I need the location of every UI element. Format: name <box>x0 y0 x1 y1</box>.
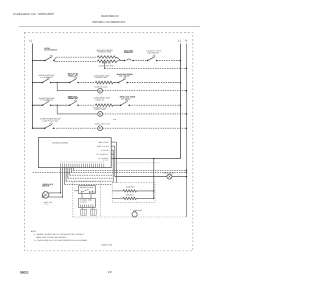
wire exit P4 <box>111 153 113 155</box>
svg-text:OVEN BAKE UNIT: OVEN BAKE UNIT <box>94 74 111 77</box>
junction L2 rung3 <box>180 104 182 106</box>
wire <box>51 104 70 106</box>
junction fork rung3 <box>57 105 58 106</box>
wire lower branch dashed <box>56 61 97 63</box>
connector strip pins <box>61 164 104 168</box>
wire drop rung3 <box>56 105 58 114</box>
wire drop to neutral branch <box>104 62 106 69</box>
wire to oven light <box>115 176 167 178</box>
junction L2 rung1 <box>180 60 182 62</box>
wire <box>51 82 70 84</box>
svg-text:OVEN DOOR SW: OVEN DOOR SW <box>39 74 55 77</box>
wire pin7 <box>71 168 73 173</box>
lock switch contacts <box>81 189 95 192</box>
wire lamp to N <box>103 113 187 115</box>
wire to L2 <box>129 104 180 106</box>
broil relay contact <box>69 100 79 106</box>
resistor broil relay coil <box>123 197 136 199</box>
junction L1 rung3 <box>32 104 34 106</box>
svg-text:GROUND: GROUND <box>134 209 143 212</box>
junction N light <box>186 176 188 178</box>
wire pin6 <box>69 168 71 176</box>
wire to N upper <box>73 169 186 171</box>
svg-text:WIRING SCHEMATIC: WIRING SCHEMATIC <box>92 20 126 24</box>
svg-text:WIRE AND COVER WH HIDDEN: WIRE AND COVER WH HIDDEN <box>36 236 67 239</box>
terminal pad P2 <box>90 207 96 215</box>
junction L1 rung1 <box>32 60 34 62</box>
junction fork rung2 <box>57 82 58 83</box>
junction N rung4 <box>186 127 188 129</box>
wire to thermostat <box>121 60 125 62</box>
svg-text:2. OVEN RELAY K IS SWITCHED: 2. OVEN RELAY K IS SWITCHED B AS SHOWN <box>34 239 88 242</box>
wire coil2 left <box>112 197 123 199</box>
resistor vent heater upper <box>97 56 116 59</box>
wire A-B stub 2 <box>90 194 92 199</box>
motor M1 <box>42 192 49 199</box>
junction L2 rung2 <box>180 82 182 84</box>
wire to L2 <box>127 82 180 84</box>
temp probe switch <box>44 123 54 129</box>
junction N rung2 <box>186 90 188 92</box>
wire coil1 left <box>112 190 123 192</box>
wire rung2 from L1 <box>33 82 43 84</box>
junction N rung1 <box>186 68 188 70</box>
box lock motor switch <box>79 198 96 207</box>
wire fork upper <box>54 57 56 60</box>
junction coil1 <box>153 190 154 191</box>
wire lamp to N <box>103 90 187 92</box>
svg-text:Publication No. 5995A023: Publication No. 5995A023 <box>13 12 54 16</box>
wire dashed <box>78 104 95 106</box>
dashed enclosure right <box>112 183 155 203</box>
svg-text:BROIL RELAY: BROIL RELAY <box>126 194 135 197</box>
svg-text:AND PLUG SW: AND PLUG SW <box>42 119 59 122</box>
svg-text:BAKE RELAY: BAKE RELAY <box>126 186 136 189</box>
wire rung1 lower to N <box>105 67 187 69</box>
wire coil1 right <box>136 190 153 192</box>
wire fork lower <box>54 61 56 62</box>
svg-text:W N OUT: W N OUT <box>98 157 108 160</box>
header rule <box>19 26 200 28</box>
junction L1 rung2 <box>32 82 34 84</box>
svg-text:GY OVEN LT: GY OVEN LT <box>97 153 109 156</box>
svg-text:RELAY: RELAY <box>68 75 79 78</box>
svg-text:THERMOSTAT: THERMOSTAT <box>147 51 159 54</box>
bake limit switch <box>118 77 128 83</box>
wire light to N <box>172 176 187 178</box>
connector pin numbers row <box>60 161 104 163</box>
svg-text:BK DSI: BK DSI <box>99 141 110 144</box>
svg-text:ELEF398CCF: ELEF398CCF <box>101 14 119 18</box>
schematic dashed border <box>24 33 192 251</box>
wire exit P1 <box>111 141 116 143</box>
N bus wire <box>185 44 187 218</box>
svg-text:ELEMENTS 660W: ELEMENTS 660W <box>98 51 112 54</box>
door latch switch S1 <box>44 55 54 61</box>
svg-text:*: * <box>130 209 131 212</box>
long wire across at 172.4 <box>33 171 187 173</box>
wire lamp to N <box>103 127 187 129</box>
bake relay contact <box>69 77 79 83</box>
svg-text:OVEN LIGHT SW: OVEN LIGHT SW <box>95 122 110 125</box>
wire <box>113 82 119 84</box>
wire rung3 from L1 <box>33 104 43 106</box>
svg-text:THERMOSTAT: THERMOSTAT <box>124 51 134 54</box>
junction coil2 <box>153 198 154 199</box>
wire lamp branch rung3 <box>57 113 98 115</box>
svg-text:ELECTRONIC OVEN CONTROL: ELECTRONIC OVEN CONTROL <box>52 141 69 144</box>
resistor bake element <box>95 81 113 84</box>
svg-text:OVEN DOOR SW: OVEN DOOR SW <box>39 97 55 100</box>
wire dashed <box>133 60 148 62</box>
svg-text:V DLB: V DLB <box>101 149 110 152</box>
wire coil2 right <box>136 197 153 199</box>
wire into lock switch <box>74 190 78 192</box>
wire <box>113 104 121 106</box>
svg-text:1. WIRE GUIDE W/ CL DENOTE A: 1. WIRE GUIDE W/ CL DENOTE AT FRONT <box>34 233 85 236</box>
wire motor upper stub <box>49 192 61 194</box>
wire exit P3 <box>111 149 113 151</box>
wire motor lower stub <box>49 196 63 198</box>
wire pin4 <box>65 168 67 182</box>
wire rung4 from L1 <box>33 127 45 129</box>
resistor vent heater lower <box>97 60 116 63</box>
wire pin1 to lock motor <box>60 168 62 193</box>
chassis ground symbol <box>132 211 137 217</box>
oven door switch <box>42 77 52 83</box>
svg-text:LIGHT 120V: LIGHT 120V <box>94 108 106 111</box>
wire exit P2 <box>111 145 115 147</box>
electronic oven control box <box>38 138 111 168</box>
wire exit N feed to L2 <box>111 158 180 160</box>
wire pin5 <box>67 168 69 179</box>
junction N rung3 <box>186 113 188 115</box>
wire resistor merge <box>117 57 121 61</box>
wire dashed <box>54 127 98 129</box>
svg-text:RELAY: RELAY <box>68 97 79 100</box>
wire pin2 to lock motor <box>61 168 63 198</box>
wire dashed <box>78 82 95 84</box>
svg-text:N: N <box>185 39 187 42</box>
wire drop rung2 <box>56 83 58 91</box>
dashed enclosure left <box>73 182 101 217</box>
svg-text:19: 19 <box>108 270 112 274</box>
svg-text:LATCH SWITCH: LATCH SWITCH <box>44 49 58 52</box>
svg-text:NOTE:: NOTE: <box>31 230 37 233</box>
oven door switch 2 <box>42 100 52 106</box>
wire lamp branch rung2 <box>57 90 98 92</box>
resistor broil element <box>95 104 113 107</box>
wire to L2 <box>157 60 181 62</box>
svg-text:58GS: 58GS <box>20 270 28 274</box>
wire pin8 <box>72 168 74 171</box>
wire upper branch dashed <box>56 56 97 58</box>
bottom dashed return wire <box>73 216 187 218</box>
wire dotted spare <box>111 162 160 164</box>
wire rung1 from L1 <box>33 60 45 62</box>
junction L1 rung4 <box>32 127 34 129</box>
resistor bake relay coil <box>123 190 136 192</box>
bake indicator lamp <box>98 88 103 93</box>
terminal pad P1 <box>81 207 87 215</box>
L1 bus wire <box>32 44 34 129</box>
safety thermostat switch <box>147 55 158 61</box>
wire pin3 <box>63 168 65 185</box>
svg-text:MOTOR: MOTOR <box>42 185 50 188</box>
svg-text:OVEN BROIL UNIT: OVEN BROIL UNIT <box>94 97 112 100</box>
wire A-B stub 1 <box>81 194 83 199</box>
thermostat TH1 <box>124 59 134 61</box>
svg-text:BR L1 IN: BR L1 IN <box>97 145 109 148</box>
junction N long wire <box>186 172 188 174</box>
wire L2 drop <box>153 159 155 199</box>
broil limit switch <box>120 100 130 106</box>
preheat indicator lamp <box>98 112 103 117</box>
box door lock switch <box>79 186 96 194</box>
motor switch pins <box>80 205 93 208</box>
svg-text:299A7700: 299A7700 <box>101 243 112 246</box>
oven cavity lamp <box>98 126 103 131</box>
oven light lamp <box>167 174 172 179</box>
L2 bus wire <box>179 44 181 159</box>
junction N <box>186 170 188 172</box>
